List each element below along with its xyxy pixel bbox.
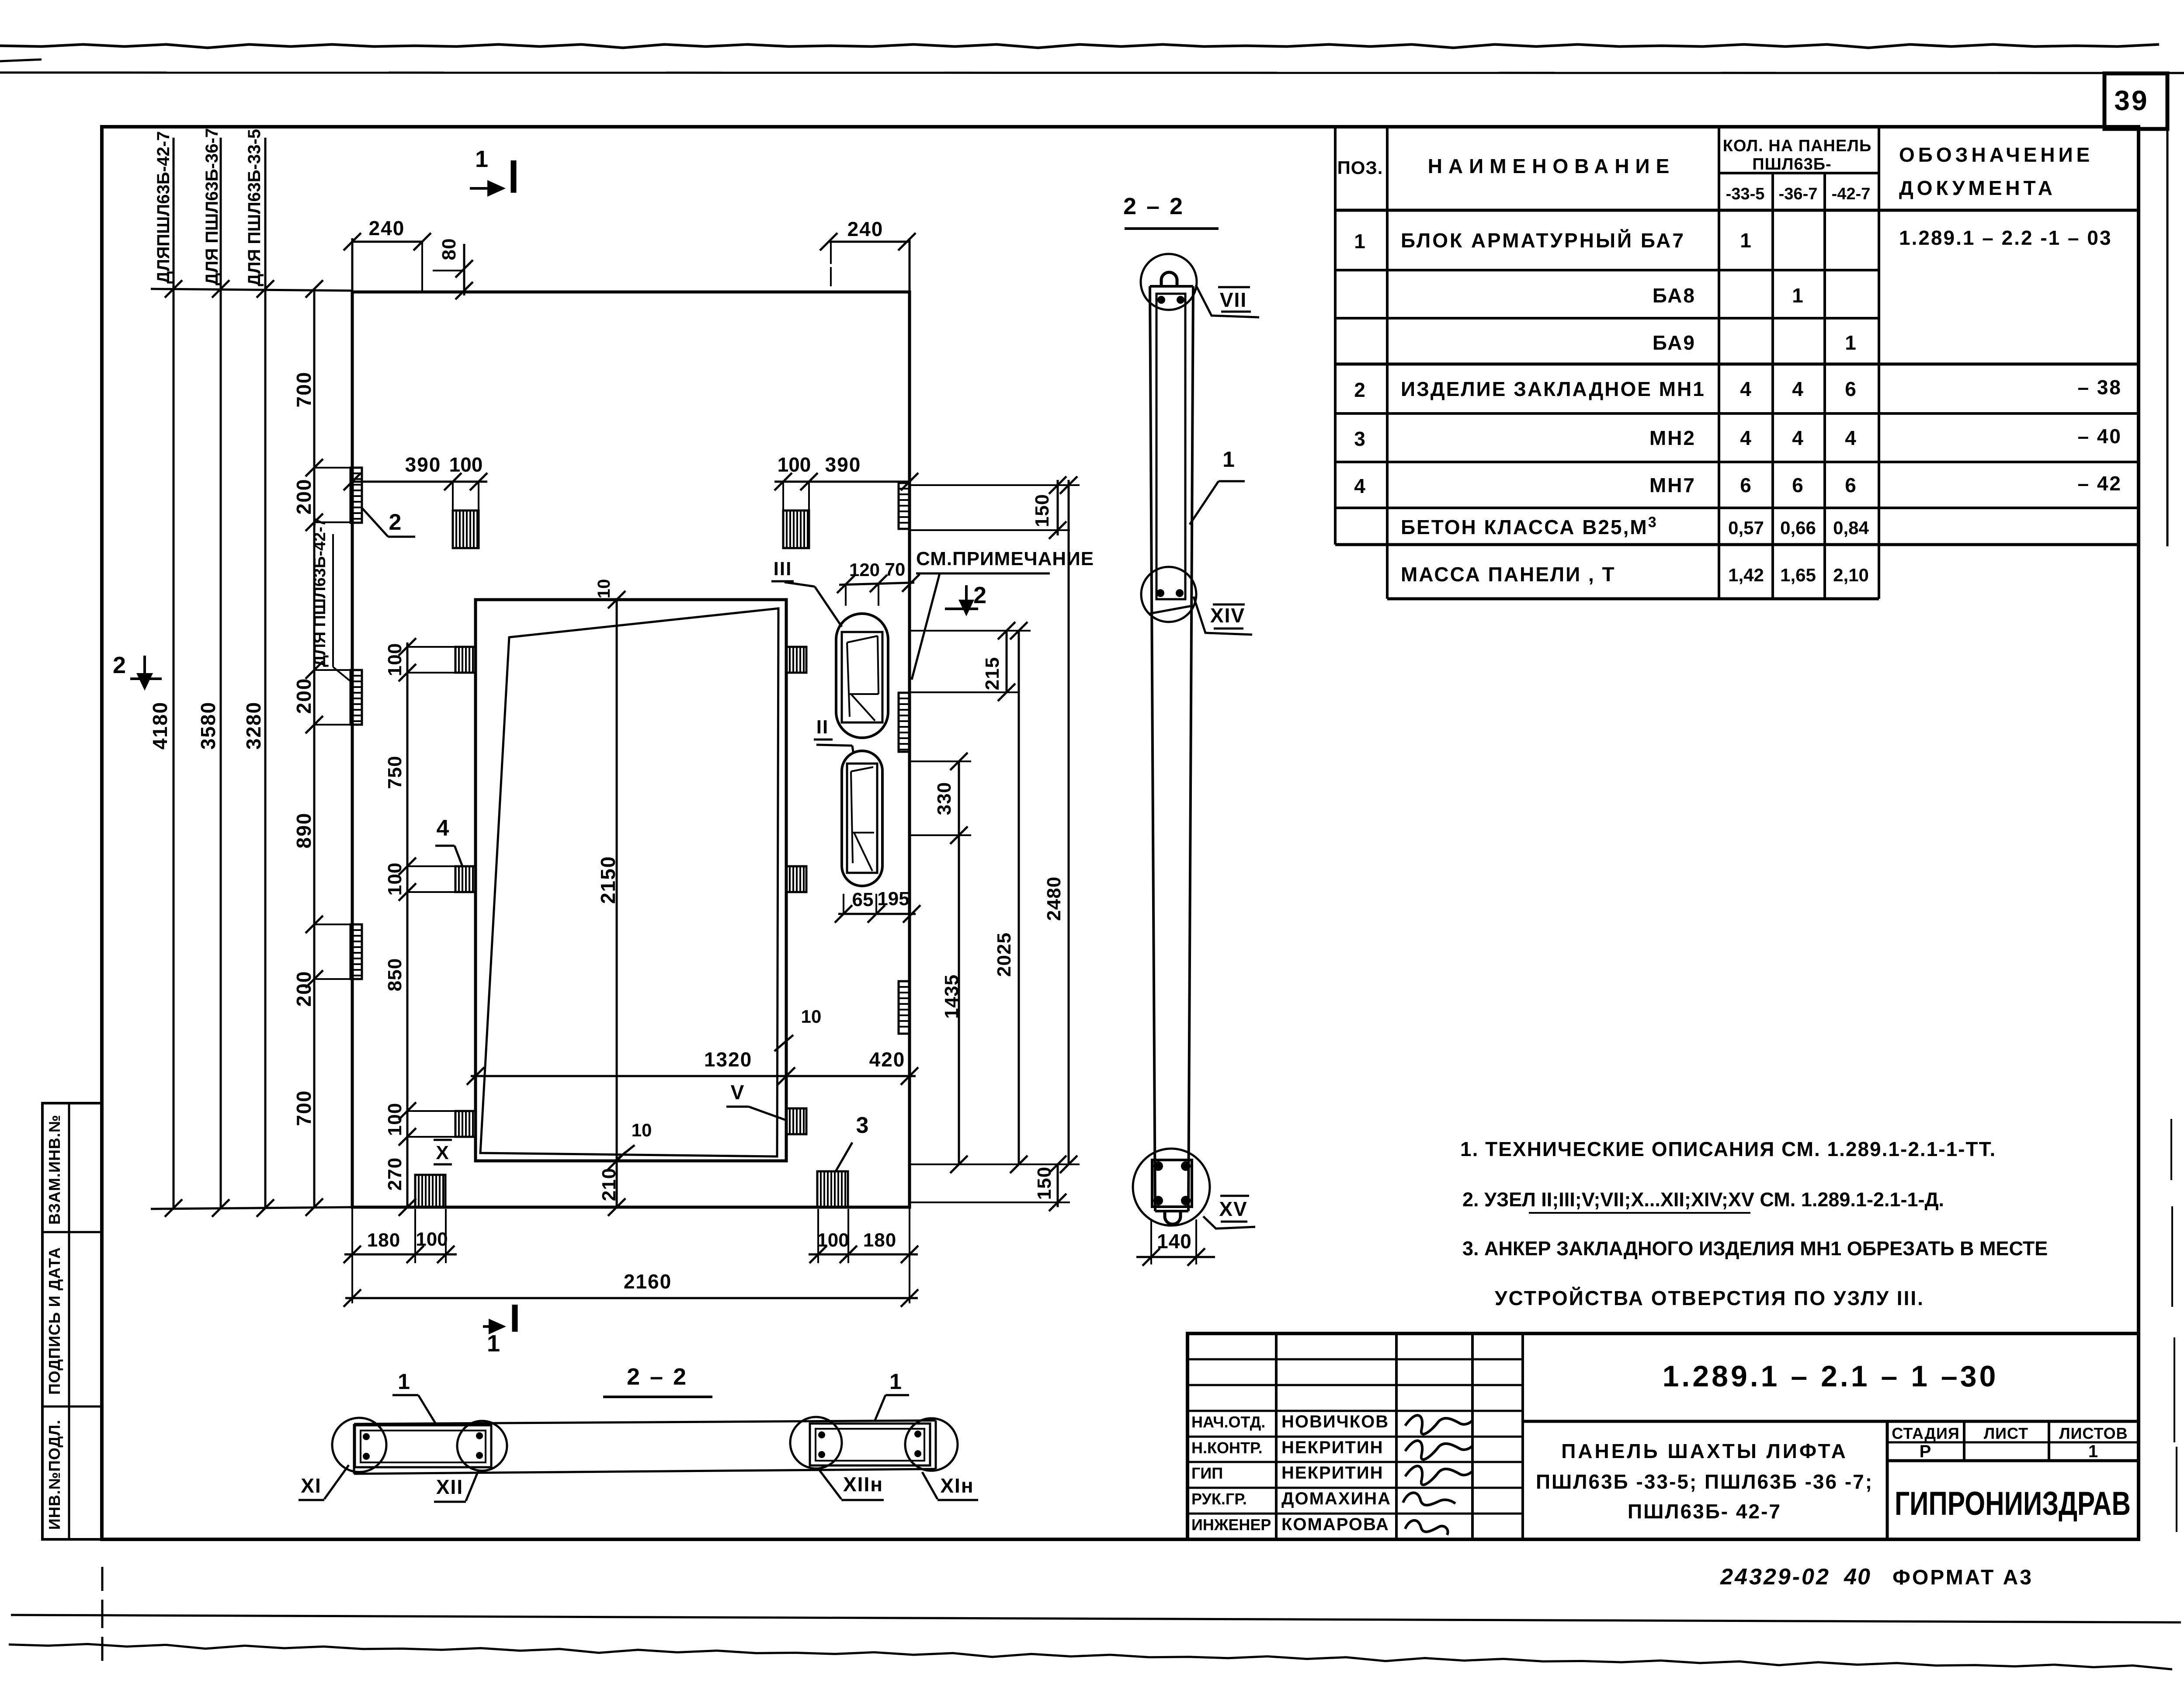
svg-text:2480: 2480 <box>1043 876 1065 921</box>
svg-text:6: 6 <box>1845 378 1857 400</box>
svg-text:1,42: 1,42 <box>1728 565 1764 585</box>
svg-text:ДЛЯ ПШЛ63Б-42-7: ДЛЯ ПШЛ63Б-42-7 <box>311 517 329 667</box>
svg-text:2150: 2150 <box>597 856 619 904</box>
svg-text:10: 10 <box>801 1006 822 1027</box>
svg-text:195: 195 <box>877 888 909 910</box>
svg-text:1: 1 <box>1740 229 1752 252</box>
svg-text:БА8: БА8 <box>1653 284 1696 307</box>
svg-text:100: 100 <box>449 453 483 476</box>
svg-text:V: V <box>731 1081 745 1104</box>
svg-text:100: 100 <box>384 1103 406 1136</box>
svg-text:2025: 2025 <box>993 932 1015 977</box>
svg-text:4: 4 <box>1792 378 1804 400</box>
svg-text:ДОКУМЕНТА: ДОКУМЕНТА <box>1899 177 2056 199</box>
svg-text:УСТРОЙСТВА ОТВЕРСТИЯ ПО УЗЛУ I: УСТРОЙСТВА ОТВЕРСТИЯ ПО УЗЛУ III. <box>1495 1287 1924 1309</box>
svg-text:ФОРМАТ А3: ФОРМАТ А3 <box>1892 1566 2033 1589</box>
svg-text:390: 390 <box>405 453 441 476</box>
svg-text:КОМАРОВА: КОМАРОВА <box>1281 1515 1389 1534</box>
svg-text:200: 200 <box>292 971 315 1007</box>
svg-text:2: 2 <box>973 582 987 608</box>
svg-text:НАЧ.ОТД.: НАЧ.ОТД. <box>1191 1413 1265 1431</box>
svg-text:ДЛЯПШЛ63Б-42-7: ДЛЯПШЛ63Б-42-7 <box>154 131 173 284</box>
svg-text:10: 10 <box>594 579 614 599</box>
svg-text:ЛИСТ: ЛИСТ <box>1984 1424 2028 1442</box>
svg-text:2,10: 2,10 <box>1833 565 1869 585</box>
svg-text:МН7: МН7 <box>1649 474 1696 497</box>
svg-text:850: 850 <box>384 958 406 991</box>
svg-text:ЛИСТОВ: ЛИСТОВ <box>2059 1424 2128 1442</box>
svg-text:1: 1 <box>1845 331 1857 354</box>
svg-text:100: 100 <box>817 1229 849 1251</box>
svg-text:ПОЗ.: ПОЗ. <box>1337 157 1383 178</box>
svg-text:СМ.ПРИМЕЧАНИЕ: СМ.ПРИМЕЧАНИЕ <box>916 548 1094 569</box>
svg-text:100: 100 <box>384 643 406 676</box>
svg-text:НЕКРИТИН: НЕКРИТИН <box>1281 1438 1383 1457</box>
svg-text:Н.КОНТР.: Н.КОНТР. <box>1191 1439 1263 1457</box>
svg-text:4: 4 <box>1740 378 1752 400</box>
svg-text:330: 330 <box>934 782 955 815</box>
svg-text:XIV: XIV <box>1210 604 1245 627</box>
svg-text:3. АНКЕР ЗАКЛАДНОГО ИЗДЕЛИЯ МН: 3. АНКЕР ЗАКЛАДНОГО ИЗДЕЛИЯ МН1 ОБРЕЗАТЬ… <box>1462 1237 2048 1260</box>
svg-text:ПШЛ63Б-: ПШЛ63Б- <box>1752 155 1831 174</box>
svg-text:2 – 2: 2 – 2 <box>627 1364 688 1390</box>
svg-text:4: 4 <box>1740 427 1752 449</box>
svg-text:Р: Р <box>1920 1442 1932 1461</box>
svg-text:ДЛЯ ПШЛ63Б-36-7: ДЛЯ ПШЛ63Б-36-7 <box>202 128 222 285</box>
svg-text:150: 150 <box>1031 494 1053 527</box>
svg-text:1: 1 <box>1222 447 1236 472</box>
svg-text:240: 240 <box>847 218 884 240</box>
svg-text:ХIн: ХIн <box>940 1474 974 1497</box>
svg-text:1320: 1320 <box>704 1048 752 1071</box>
svg-text:700: 700 <box>292 372 315 408</box>
svg-text:– 38: – 38 <box>2077 376 2122 399</box>
svg-text:10: 10 <box>632 1120 652 1140</box>
svg-text:НАИМЕНОВАНИЕ: НАИМЕНОВАНИЕ <box>1428 155 1676 177</box>
svg-text:240: 240 <box>369 217 405 240</box>
svg-text:0,84: 0,84 <box>1833 517 1869 538</box>
svg-text:1. ТЕХНИЧЕСКИЕ ОПИСАНИЯ СМ. 1: 1. ТЕХНИЧЕСКИЕ ОПИСАНИЯ СМ. 1.289.1-2.1-… <box>1460 1138 1996 1160</box>
svg-text:ОБОЗНАЧЕНИЕ: ОБОЗНАЧЕНИЕ <box>1899 143 2093 166</box>
svg-text:1,65: 1,65 <box>1780 565 1816 585</box>
svg-text:1: 1 <box>2088 1442 2099 1461</box>
svg-text:0,66: 0,66 <box>1780 517 1816 538</box>
svg-text:ИНЖЕНЕР: ИНЖЕНЕР <box>1191 1516 1271 1534</box>
svg-text:4: 4 <box>1354 475 1366 497</box>
svg-text:420: 420 <box>869 1048 906 1071</box>
svg-text:210: 210 <box>598 1168 620 1201</box>
svg-text:1: 1 <box>398 1369 411 1394</box>
svg-text:ХI: ХI <box>301 1474 321 1497</box>
svg-text:100: 100 <box>778 453 811 476</box>
svg-text:200: 200 <box>292 678 315 714</box>
svg-text:2: 2 <box>113 652 127 678</box>
svg-text:4: 4 <box>1845 427 1857 449</box>
svg-text:-42-7: -42-7 <box>1832 185 1871 203</box>
svg-text:39: 39 <box>2114 85 2149 116</box>
svg-text:700: 700 <box>292 1090 315 1126</box>
svg-text:НЕКРИТИН: НЕКРИТИН <box>1281 1463 1383 1483</box>
svg-text:2: 2 <box>1354 378 1366 401</box>
svg-text:БА9: БА9 <box>1653 331 1696 354</box>
svg-text:70: 70 <box>885 559 906 580</box>
svg-text:ПШЛ63Б- 42-7: ПШЛ63Б- 42-7 <box>1628 1500 1781 1523</box>
svg-text:6: 6 <box>1845 474 1857 497</box>
svg-text:ВЗАМ.ИНВ.№: ВЗАМ.ИНВ.№ <box>45 1115 63 1225</box>
svg-text:3: 3 <box>1354 427 1366 450</box>
svg-text:390: 390 <box>825 453 861 476</box>
svg-text:ДОМАХИНА: ДОМАХИНА <box>1281 1489 1391 1508</box>
svg-text:ИЗДЕЛИЕ ЗАКЛАДНОЕ МН1: ИЗДЕЛИЕ ЗАКЛАДНОЕ МН1 <box>1401 378 1705 400</box>
svg-text:1: 1 <box>1792 284 1804 307</box>
svg-text:МАССА ПАНЕЛИ , Т: МАССА ПАНЕЛИ , Т <box>1401 563 1616 586</box>
svg-text:-33-5: -33-5 <box>1726 185 1765 203</box>
svg-text:3580: 3580 <box>197 701 219 750</box>
svg-text:ГИП: ГИП <box>1191 1464 1223 1482</box>
svg-text:РУК.ГР.: РУК.ГР. <box>1191 1490 1247 1508</box>
svg-text:1: 1 <box>1354 230 1366 253</box>
svg-text:ИНВ.№ПОДЛ.: ИНВ.№ПОДЛ. <box>45 1420 63 1530</box>
svg-text:1: 1 <box>475 146 489 172</box>
svg-text:– 42: – 42 <box>2077 472 2122 495</box>
svg-text:100: 100 <box>384 862 406 896</box>
svg-text:270: 270 <box>384 1157 406 1191</box>
svg-text:3: 3 <box>856 1113 870 1138</box>
svg-text:6: 6 <box>1740 474 1752 497</box>
svg-text:2. УЗЕЛ II;III;V;VII;X...XII;X: 2. УЗЕЛ II;III;V;VII;X...XII;XIV;XV СМ. … <box>1462 1188 1944 1211</box>
svg-text:1.289.1 – 2.1 – 1 –30: 1.289.1 – 2.1 – 1 –30 <box>1663 1360 1999 1393</box>
svg-text:120: 120 <box>849 559 880 580</box>
svg-text:890: 890 <box>292 813 315 849</box>
svg-text:80: 80 <box>438 238 460 260</box>
svg-text:БЛОК АРМАТУРНЫЙ БА7: БЛОК АРМАТУРНЫЙ БА7 <box>1401 229 1685 252</box>
svg-text:0,57: 0,57 <box>1728 517 1764 538</box>
svg-text:1435: 1435 <box>941 974 962 1019</box>
svg-text:200: 200 <box>292 479 315 515</box>
svg-text:180: 180 <box>863 1229 896 1251</box>
svg-text:2: 2 <box>389 510 403 535</box>
svg-text:-36-7: -36-7 <box>1779 185 1818 203</box>
svg-text:1: 1 <box>889 1369 903 1394</box>
svg-text:150: 150 <box>1034 1167 1055 1200</box>
svg-text:180: 180 <box>367 1229 400 1251</box>
svg-text:65: 65 <box>852 889 874 910</box>
svg-text:МН2: МН2 <box>1649 427 1696 449</box>
svg-text:КОЛ. НА ПАНЕЛЬ: КОЛ. НА ПАНЕЛЬ <box>1723 137 1872 155</box>
svg-text:3280: 3280 <box>242 701 265 750</box>
svg-text:4180: 4180 <box>149 701 171 750</box>
svg-text:ПАНЕЛЬ ШАХТЫ ЛИФТА: ПАНЕЛЬ ШАХТЫ ЛИФТА <box>1561 1440 1848 1462</box>
svg-text:II: II <box>816 716 829 738</box>
svg-text:4: 4 <box>437 816 450 841</box>
svg-text:НОВИЧКОВ: НОВИЧКОВ <box>1281 1412 1389 1431</box>
svg-text:СТАДИЯ: СТАДИЯ <box>1892 1424 1960 1442</box>
svg-text:Х: Х <box>436 1142 449 1163</box>
svg-text:140: 140 <box>1157 1230 1192 1253</box>
svg-text:4: 4 <box>1792 427 1804 449</box>
svg-text:ГИПРОНИИЗДРАВ: ГИПРОНИИЗДРАВ <box>1895 1485 2131 1522</box>
svg-text:2 – 2: 2 – 2 <box>1123 193 1184 219</box>
svg-text:6: 6 <box>1792 474 1804 497</box>
svg-text:750: 750 <box>384 756 406 789</box>
svg-text:III: III <box>774 558 792 580</box>
svg-text:VII: VII <box>1220 288 1247 311</box>
svg-text:– 40: – 40 <box>2077 425 2122 448</box>
svg-text:24329-02: 24329-02 <box>1720 1564 1830 1590</box>
svg-text:XV: XV <box>1219 1198 1247 1220</box>
svg-text:БЕТОН КЛАССА В25,М3: БЕТОН КЛАССА В25,М3 <box>1401 514 1658 538</box>
svg-text:ДЛЯ ПШЛ63Б-33-5: ДЛЯ ПШЛ63Б-33-5 <box>245 129 264 286</box>
svg-text:215: 215 <box>982 657 1003 690</box>
svg-text:40: 40 <box>1844 1564 1871 1590</box>
svg-text:100: 100 <box>416 1229 448 1250</box>
svg-text:1: 1 <box>487 1330 501 1357</box>
svg-text:2160: 2160 <box>624 1270 672 1293</box>
svg-text:1.289.1 – 2.2 -1 – 03: 1.289.1 – 2.2 -1 – 03 <box>1899 226 2112 249</box>
svg-text:ПШЛ63Б -33-5; ПШЛ63Б -36 -7;: ПШЛ63Б -33-5; ПШЛ63Б -36 -7; <box>1536 1470 1873 1493</box>
svg-text:ХIIн: ХIIн <box>843 1473 883 1496</box>
svg-text:ПОДПИСЬ И ДАТА: ПОДПИСЬ И ДАТА <box>45 1247 63 1395</box>
svg-text:ХII: ХII <box>436 1476 463 1498</box>
